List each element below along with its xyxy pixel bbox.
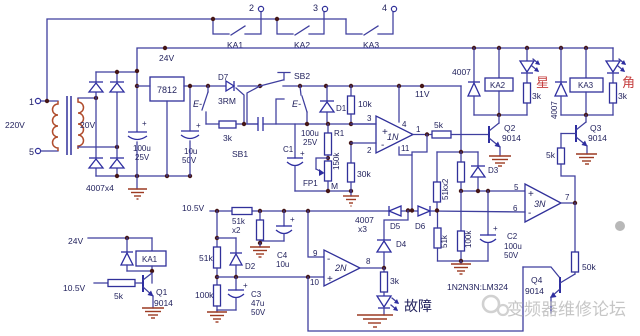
svg-text:50V: 50V [504, 251, 519, 260]
op-amp U1C 3N [525, 184, 561, 222]
svg-text:10.5V: 10.5V [182, 203, 205, 213]
diode bridge bottom-left [89, 158, 103, 168]
label 10u 50V [182, 147, 197, 165]
resistor 3k fault [381, 268, 400, 296]
svg-text:x2: x2 [232, 226, 241, 235]
svg-text:-: - [381, 140, 384, 151]
contact KA1 [213, 12, 261, 35]
resistor 3k delta [610, 83, 628, 115]
svg-text:C2: C2 [507, 232, 518, 241]
svg-text:C3: C3 [251, 290, 262, 299]
transistor Q2 9014 [489, 115, 521, 148]
diode 4007 KA3 [555, 48, 567, 115]
wire D2 top branch [217, 238, 236, 253]
ground FP1 [343, 191, 359, 206]
node dot pin10 [306, 275, 310, 279]
svg-text:5k: 5k [546, 150, 556, 160]
wire Q3 base network [561, 134, 576, 149]
svg-text:KA1: KA1 [142, 255, 158, 264]
resistor 51kx2 right [458, 152, 465, 191]
resistor 51k vertical C4 branch [257, 211, 264, 246]
resistor 51k bottom [434, 210, 449, 261]
svg-text:4: 4 [402, 120, 407, 129]
resistor 30k [348, 143, 372, 191]
svg-text:+: + [142, 119, 147, 128]
svg-text:D5: D5 [390, 222, 401, 231]
ground Q2 [489, 147, 511, 166]
terminal 2 [249, 3, 264, 13]
svg-text:SB2: SB2 [294, 71, 310, 81]
node dots 24V rail right [472, 46, 588, 50]
wire feedback to rail [412, 135, 427, 211]
svg-text:3k: 3k [223, 133, 233, 143]
resistor 50k [572, 203, 597, 272]
label 4007x4 [86, 183, 114, 193]
svg-text:9014: 9014 [154, 298, 173, 308]
svg-text:SB1: SB1 [232, 149, 248, 159]
diode D6 [415, 206, 430, 231]
svg-text:变频器维修论坛: 变频器维修论坛 [507, 300, 626, 319]
resistor 5k Q3 [546, 148, 565, 164]
capacitor C4 10u [276, 211, 295, 241]
node dot KA1 diode top [125, 236, 129, 240]
relay coil KA2 [485, 48, 513, 115]
svg-text:+: + [528, 189, 534, 200]
svg-text:3k: 3k [390, 276, 400, 286]
label 3RM [218, 96, 236, 106]
node dot C3 top [234, 275, 238, 279]
svg-text:8: 8 [366, 257, 371, 266]
diode D4 [377, 240, 407, 268]
wire 10u cap leads [189, 86, 191, 176]
transformer T primary winding [53, 101, 58, 151]
resistor 100k bottom [458, 230, 474, 261]
resistor R1 150k [325, 124, 345, 170]
wire bridge column 2 [116, 72, 118, 176]
ground Q1 [142, 296, 164, 318]
svg-text:24V: 24V [159, 53, 174, 63]
svg-text:2: 2 [367, 146, 372, 155]
relay coil KA3 [570, 48, 603, 115]
transformer T secondary winding [78, 98, 84, 149]
gray dot artifact [615, 221, 625, 231]
diode bridge bottom-right [110, 158, 124, 168]
transistor Q1 9014 [143, 273, 173, 308]
node dots bottom rail [115, 174, 192, 178]
wire 5k to Q2 base [451, 134, 489, 136]
wire FP1 bottom rail [295, 190, 351, 192]
terminal 1 [29, 97, 58, 107]
resistor 3k star [524, 83, 542, 115]
label SB1 [232, 149, 248, 159]
label KA1 [227, 40, 243, 50]
node dot C4 gnd [258, 241, 262, 245]
diode D5 [389, 206, 401, 231]
contact KA3 [346, 12, 393, 35]
svg-text:7812: 7812 [157, 85, 177, 95]
node dot D2 top [215, 236, 219, 240]
svg-text:C1: C1 [283, 145, 294, 154]
wire pin9 drop [308, 211, 324, 258]
ground Q3 [576, 146, 597, 164]
node dots 10.5V rail [215, 208, 439, 213]
label 10.5V Q1 [63, 283, 86, 293]
label 4007 x3 [355, 215, 374, 234]
svg-text:9014: 9014 [502, 133, 521, 143]
wire C2 ground rail [438, 260, 489, 262]
pin 2 wire [351, 143, 376, 155]
terminal 5 [29, 147, 58, 157]
svg-text:11: 11 [401, 144, 410, 153]
svg-text:100k: 100k [195, 290, 214, 300]
wire bridge bottom rail [96, 175, 190, 177]
svg-text:51k: 51k [440, 234, 449, 248]
svg-text:+: + [196, 121, 201, 130]
svg-text:5: 5 [514, 183, 519, 192]
node dot D1-R1 [326, 122, 330, 126]
wire D4 branch [384, 211, 408, 241]
node dot E2 bottom [305, 122, 309, 126]
potentiometer FP1 [303, 158, 332, 191]
svg-text:1: 1 [29, 97, 34, 107]
resistor 100k divider [195, 285, 221, 310]
label 11V [415, 89, 430, 99]
svg-text:KA2: KA2 [490, 81, 506, 90]
node dot 137-71 [135, 69, 139, 73]
resistor 51k x2 horizontal [232, 208, 252, 236]
capacitor series SB1 [258, 117, 263, 131]
svg-text:3k: 3k [532, 91, 542, 101]
node dot terminal1 [45, 99, 49, 103]
wire 100k C3 bottom [217, 309, 236, 311]
svg-text:3RM: 3RM [218, 96, 236, 106]
svg-text:R1: R1 [334, 129, 345, 138]
wire 5k to Q1 base [135, 282, 143, 284]
svg-text:星: 星 [536, 75, 549, 90]
pin 11 wire [399, 144, 412, 155]
LED delta [606, 48, 626, 83]
svg-text:D2: D2 [245, 262, 256, 271]
svg-text:FP1: FP1 [303, 179, 318, 188]
op-amp U1B 2N [324, 250, 360, 286]
svg-text:10u: 10u [276, 260, 289, 269]
wire pin10 bus drop [308, 267, 523, 331]
resistor 5k op1 [432, 120, 451, 138]
node dot 3N out [573, 201, 577, 205]
wire pin5 line [461, 190, 525, 192]
LED fault [377, 296, 399, 315]
label 100u 25V [133, 144, 151, 162]
svg-text:51k: 51k [232, 217, 246, 226]
diode KA1 [121, 238, 133, 271]
svg-text:220V: 220V [5, 120, 25, 130]
svg-text:10k: 10k [358, 99, 372, 109]
svg-text:Q4: Q4 [531, 275, 543, 285]
diode D2 [230, 253, 256, 277]
svg-text:10.5V: 10.5V [63, 283, 86, 293]
svg-text:4: 4 [382, 3, 387, 13]
svg-text:24V: 24V [68, 236, 83, 246]
svg-text:+: + [327, 274, 333, 285]
svg-text:30k: 30k [357, 169, 371, 179]
svg-text:1N: 1N [387, 132, 399, 142]
label fault [404, 298, 432, 314]
svg-text:3N: 3N [534, 199, 546, 209]
svg-text:+: + [243, 281, 248, 290]
label KA2 [294, 40, 310, 50]
op-amp U1A 1N [376, 116, 413, 153]
svg-text:x3: x3 [358, 224, 367, 234]
pin 8 output [360, 257, 384, 268]
capacitor C 100u 25V [128, 119, 147, 140]
node dot 30k bottom [349, 189, 353, 193]
svg-text:51k: 51k [199, 253, 213, 263]
svg-text:7: 7 [565, 193, 570, 202]
label delta [622, 75, 635, 90]
capacitor 10u 50V [181, 121, 201, 139]
wire bridge column 1 [95, 72, 97, 176]
node dot divider mid [215, 275, 219, 279]
svg-text:10u: 10u [184, 147, 197, 156]
svg-text:10: 10 [310, 278, 319, 287]
svg-text:2N: 2N [334, 263, 347, 273]
node dot gnd rail [459, 259, 463, 263]
resistor 51k divider [199, 247, 221, 285]
node dot secondary top [94, 96, 98, 100]
svg-text:D3: D3 [488, 166, 499, 175]
node dots on 11V rail [188, 84, 424, 88]
svg-text:100k: 100k [464, 230, 473, 248]
svg-text:D7: D7 [218, 73, 229, 82]
node dot bridge top [115, 70, 119, 74]
svg-text:5k: 5k [114, 291, 124, 301]
node dot rail-KA2 [275, 17, 279, 21]
wire 24V KA1 feed [88, 238, 152, 251]
pin 5 label [514, 183, 519, 192]
wire cap to C1 corner [263, 99, 376, 124]
node dot FP1 bottom [326, 189, 330, 193]
transformer core [67, 96, 71, 155]
diode D3 [471, 152, 499, 191]
svg-text:25V: 25V [303, 138, 318, 147]
svg-text:3: 3 [313, 3, 318, 13]
label 4007 left [452, 67, 471, 77]
svg-text:Q1: Q1 [156, 287, 168, 297]
svg-text:1N2N3N:LM324: 1N2N3N:LM324 [447, 282, 508, 292]
wire KA1 bottom [127, 270, 152, 272]
node dot 10k bottom pin3 [349, 122, 353, 126]
wire SB2 NC drop [247, 86, 260, 124]
wire node 152 rail [437, 151, 478, 153]
svg-text:9014: 9014 [588, 133, 607, 143]
transistor Q3 9014 [576, 115, 607, 147]
svg-text:5k: 5k [434, 120, 444, 130]
svg-text:100u: 100u [504, 242, 522, 251]
svg-text:D4: D4 [396, 240, 407, 249]
svg-text:2: 2 [249, 3, 254, 13]
svg-text:47u: 47u [251, 299, 264, 308]
node dots pin5 line [459, 189, 490, 193]
wire C4 to ground [260, 240, 284, 242]
node dot rail-KA1 [211, 17, 215, 21]
wire 10.5V divider column [216, 211, 218, 247]
pin 6 label [513, 204, 518, 213]
svg-text:D1: D1 [336, 104, 347, 113]
wire 5k to output node [561, 164, 575, 203]
svg-text:E-: E- [292, 99, 301, 109]
svg-text:角: 角 [622, 75, 635, 90]
label star [536, 75, 549, 90]
node dot 461-152 [459, 150, 463, 154]
regulator 7812 [150, 77, 184, 101]
ground C4 [250, 243, 270, 257]
wire 10.5V to 5k [94, 282, 108, 284]
svg-text:+: + [290, 215, 295, 224]
watermark logo [483, 296, 508, 315]
svg-text:Q3: Q3 [590, 123, 602, 133]
svg-text:3k: 3k [618, 91, 628, 101]
node dot 137-86 [135, 84, 139, 88]
switch SB2 [260, 71, 310, 86]
resistor 5k Q1 [108, 280, 135, 302]
diode 4007 KA2 [468, 48, 480, 115]
transistor Q4 9014 [523, 267, 575, 313]
labels C4 [276, 251, 289, 269]
label 20V [80, 120, 95, 130]
label KA3 [363, 40, 379, 50]
ground bridge [128, 176, 147, 199]
svg-text:4007: 4007 [550, 101, 559, 119]
terminal 3 [313, 3, 328, 13]
node dot 30k top pin2 [349, 141, 353, 145]
diode bridge top-right [110, 82, 124, 92]
terminal 4 [382, 3, 397, 13]
resistor 3k SB1 [219, 121, 236, 143]
node dot 2N out [382, 266, 386, 270]
label 100u 25V C1 [301, 129, 319, 147]
label 4007 vertical [550, 101, 559, 119]
svg-text:故障: 故障 [404, 298, 432, 314]
label 220V [5, 120, 25, 130]
wire pin10 line [217, 276, 324, 278]
ground divider [207, 310, 227, 322]
svg-text:D6: D6 [415, 222, 426, 231]
node dot secondary bottom [115, 145, 119, 149]
node dot R1-FP1 [326, 156, 330, 160]
capacitor C1 100u 25V [283, 124, 305, 191]
svg-text:50V: 50V [251, 308, 266, 317]
pin 3 wire [351, 114, 376, 124]
wire 24V rail [137, 48, 613, 71]
svg-text:E-: E- [193, 99, 202, 109]
svg-text:11V: 11V [415, 89, 430, 99]
diode D1 [320, 86, 347, 124]
capacitor C3 47u 50V [228, 277, 248, 310]
svg-text:-: - [327, 254, 330, 265]
wire secondary bottom [78, 146, 117, 148]
LED star [520, 48, 540, 83]
svg-text:51kx2: 51kx2 [441, 178, 450, 200]
svg-text:+: + [493, 224, 498, 233]
pin 1 output wire [413, 125, 432, 135]
label 24V [159, 53, 174, 63]
svg-text:100u: 100u [133, 144, 151, 153]
svg-text:1: 1 [416, 125, 421, 134]
contact KA2 [277, 12, 324, 35]
wire star group bottom [474, 114, 527, 116]
wire D7 drop [236, 88, 244, 124]
svg-text:4007x4: 4007x4 [86, 183, 114, 193]
labels C2 [504, 232, 522, 260]
svg-text:3: 3 [367, 114, 372, 123]
label 10.5V left [182, 203, 205, 213]
labels C3 [251, 290, 266, 317]
diode bridge top-left [89, 82, 103, 92]
label M [331, 181, 338, 191]
svg-text:100u: 100u [301, 129, 319, 138]
watermark text [507, 300, 626, 319]
svg-text:+: + [300, 149, 305, 158]
wire secondary top [78, 97, 96, 99]
node dot Q3 collector [584, 113, 588, 117]
wire top 220V line rail [47, 19, 346, 101]
svg-text:Q2: Q2 [504, 123, 516, 133]
pin 4 wire [399, 86, 407, 129]
wire 11V rail [184, 86, 461, 152]
node dot 24V-7812 [163, 46, 167, 50]
svg-text:20V: 20V [80, 120, 95, 130]
svg-text:9014: 9014 [525, 286, 544, 296]
label LM324 [447, 282, 508, 292]
node dot Q1 collector [150, 269, 154, 273]
svg-text:KA3: KA3 [578, 81, 594, 90]
diode D7 series [218, 73, 234, 91]
node dot Q2 collector [497, 113, 501, 117]
pin 7 output [561, 193, 575, 203]
svg-text:M: M [331, 181, 338, 191]
wire 24V feed column [136, 71, 138, 176]
svg-text:-: - [528, 208, 531, 219]
svg-text:C4: C4 [277, 251, 288, 260]
svg-text:4007: 4007 [452, 67, 471, 77]
relay coil KA1 [136, 251, 166, 283]
svg-text:150k: 150k [332, 152, 341, 170]
svg-text:+: + [382, 127, 388, 138]
ground C2 [451, 261, 471, 274]
svg-text:25V: 25V [135, 153, 150, 162]
label 24V second [68, 236, 83, 246]
node dot op1 out [425, 132, 429, 136]
ground fault LED [357, 315, 393, 327]
switch E2 [292, 86, 307, 124]
wire 3k leads [206, 123, 257, 125]
pin 10 label [310, 278, 319, 287]
node dot D7-3k [242, 122, 246, 126]
svg-text:9: 9 [313, 249, 318, 258]
wire bridge top rail [96, 71, 137, 73]
capacitor C2 100u 50V [480, 191, 498, 261]
switch SB1 [193, 86, 208, 124]
resistor 51kx2 left [434, 152, 451, 211]
wire 51k below [460, 191, 462, 231]
svg-text:50k: 50k [582, 262, 596, 272]
wire 7812 ground pin [166, 101, 168, 176]
resistor 10k [348, 86, 373, 124]
svg-text:5: 5 [29, 147, 34, 157]
wire 10.5V rail long [210, 211, 525, 212]
wire delta group bottom [561, 114, 613, 116]
wire 7812 input [137, 85, 150, 87]
